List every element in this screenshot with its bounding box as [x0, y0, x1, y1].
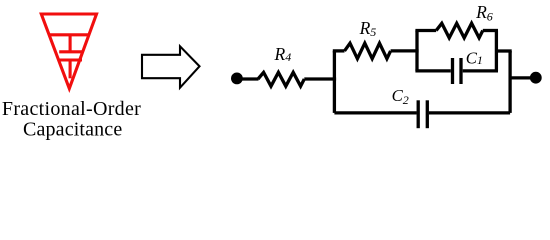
svg-text:Fractional-Order: Fractional-Order	[2, 98, 141, 120]
bottom branch wire right of C2	[429, 111, 510, 114]
plate 2	[58, 58, 82, 61]
box left edge	[415, 31, 418, 71]
wire: R4 to left node	[304, 77, 336, 80]
svg-text:R5: R5	[359, 18, 377, 39]
lower stub	[69, 60, 72, 78]
top bar inside triangle	[49, 33, 89, 36]
bottom branch wire left of C2	[334, 111, 416, 114]
upper stub	[69, 35, 72, 52]
block arrow (transform symbol)	[142, 46, 200, 87]
box bottom wire left of C1	[415, 69, 450, 72]
right terminal dot	[530, 72, 542, 84]
left node vertical	[333, 51, 336, 113]
plate 1	[59, 50, 83, 53]
top branch wire to R5	[333, 49, 345, 52]
capacitor C1 plates	[451, 58, 454, 84]
capacitor C2 plates	[417, 100, 420, 128]
svg-text:C2: C2	[392, 86, 409, 107]
circuit	[231, 23, 542, 128]
wire: right node to right dot	[510, 76, 536, 79]
resistor R5 zigzag	[345, 43, 391, 59]
triangle outline	[41, 14, 96, 89]
resistor R4 zigzag	[258, 72, 304, 86]
wire: dot to R4	[237, 77, 259, 80]
box right edge	[495, 31, 498, 71]
svg-text:R6: R6	[475, 2, 493, 24]
svg-text:R4: R4	[274, 44, 292, 64]
wire: box right to right node	[496, 49, 511, 52]
left terminal dot	[231, 73, 243, 85]
fractional-order capacitor symbol (red triangle)	[41, 14, 96, 89]
box bottom wire right of C1	[463, 69, 498, 72]
right node vertical	[508, 51, 511, 113]
resistor R6 zigzag	[436, 23, 483, 38]
svg-text:Capacitance: Capacitance	[23, 119, 122, 141]
box top wire right of R6	[483, 29, 498, 32]
svg-text:C1: C1	[466, 48, 483, 67]
box top wire left of R6	[415, 29, 436, 32]
wire: R5 to box left	[391, 49, 419, 52]
